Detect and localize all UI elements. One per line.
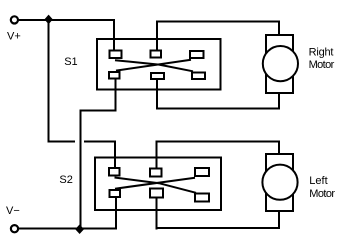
S1 pin 4 (109, 72, 120, 78)
switch S1 body (97, 39, 220, 90)
wire left motor bottom riser (278, 211, 280, 229)
S1 pin 5 (151, 73, 164, 79)
S1 crossover link B (116, 60, 191, 71)
left motor frame (266, 154, 293, 211)
S2 pin 3 (195, 168, 209, 176)
wire S1 pin 2 up (156, 21, 158, 51)
S2 pin 5 (150, 189, 163, 198)
wire to right motor bottom (156, 108, 280, 110)
S2 pin 2 (150, 169, 162, 177)
wire branch horizontal left of hop (48, 140, 75, 142)
wire V+ horizontal (18, 19, 115, 21)
left motor body (262, 165, 297, 200)
S1 pin 1 (109, 50, 121, 58)
wire S1 pin 4 down (115, 78, 117, 112)
S1 crossover link A (115, 60, 193, 71)
S2 crossover link A (115, 178, 197, 193)
wire V+ drop to S1 pin 1 (113, 19, 115, 51)
wire S1 pin 5 down (156, 80, 158, 110)
svg-text:V−: V− (6, 205, 20, 217)
svg-text:Right: Right (309, 46, 334, 58)
S1 pin 6 (192, 73, 205, 79)
wire to left motor bottom (155, 227, 279, 229)
wire S2 pin 4 down to V- (115, 198, 117, 230)
svg-text:V+: V+ (7, 31, 21, 43)
svg-text:Motor: Motor (309, 188, 335, 200)
node junction V- (75, 224, 84, 234)
terminal V- (11, 225, 18, 232)
wire V- bus vertical (79, 110, 81, 230)
wire to left motor top (156, 140, 280, 142)
wire right motor top drop (278, 21, 280, 36)
S2 pin 6 (195, 193, 209, 201)
wire to right motor top (156, 21, 280, 23)
wire branch horizontal right of hop (84, 140, 115, 142)
S1 pin 3 (190, 51, 203, 58)
node junction V+ (44, 15, 52, 25)
svg-text:S2: S2 (59, 174, 72, 186)
svg-text:Left: Left (309, 175, 327, 187)
wire right motor bottom riser (278, 93, 280, 109)
svg-text:S1: S1 (64, 56, 77, 68)
wire horizontal to V- bus (79, 110, 116, 112)
svg-text:Motor: Motor (309, 59, 335, 71)
S2 pin 1 (109, 168, 119, 176)
S1 pin 2 (151, 51, 162, 58)
wire S2 pin 2 up (156, 140, 158, 168)
terminal V+ (11, 16, 18, 23)
wire drop to S2 pin 1 (114, 140, 116, 168)
wire V- horizontal (19, 227, 117, 229)
right motor body (263, 46, 298, 81)
switch S2 body (95, 157, 221, 210)
right motor frame (266, 35, 293, 93)
S2 pin 4 (109, 190, 120, 197)
S2 crossover link B (115, 178, 195, 189)
wire S2 pin 5 down (155, 198, 157, 230)
wire V+ branch vertical (48, 19, 50, 142)
wire left motor top drop (278, 140, 280, 154)
